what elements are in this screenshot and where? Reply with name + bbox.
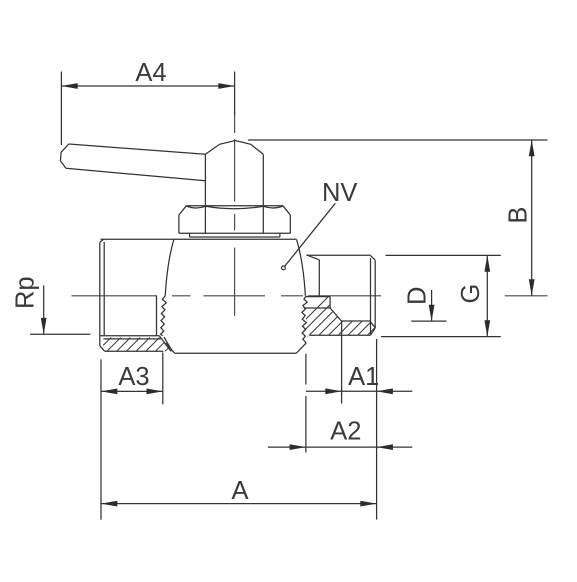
svg-text:A: A: [231, 477, 248, 505]
svg-text:A4: A4: [135, 59, 166, 87]
svg-text:D: D: [404, 287, 432, 305]
svg-text:A1: A1: [348, 363, 379, 391]
svg-text:A3: A3: [118, 363, 149, 391]
svg-text:B: B: [504, 207, 532, 224]
svg-text:Rp: Rp: [12, 276, 40, 309]
svg-text:NV: NV: [322, 179, 357, 207]
svg-text:G: G: [457, 284, 485, 304]
svg-text:A2: A2: [330, 417, 361, 445]
